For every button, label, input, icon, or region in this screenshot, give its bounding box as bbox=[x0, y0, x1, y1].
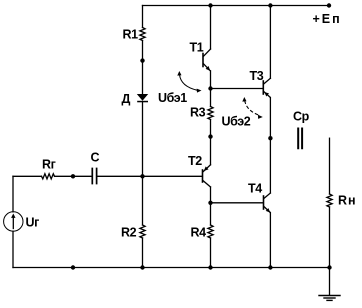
svg-text:Rг: Rг bbox=[42, 158, 56, 172]
junction node bottom b bbox=[140, 265, 144, 269]
wire R1 to diode bbox=[142, 41, 144, 95]
wire Rn to bottom rail bbox=[329, 207, 331, 268]
junction node R3 bottom bbox=[208, 134, 212, 138]
junction node input a bbox=[71, 174, 75, 178]
svg-text:Т4: Т4 bbox=[248, 182, 262, 196]
transistor T1 bbox=[203, 49, 211, 70]
source Ug arrowhead bbox=[11, 214, 15, 218]
wire T4 emitter to bottom rail bbox=[269, 213, 271, 268]
resistor R3 bbox=[208, 107, 213, 120]
junction node Cp left bbox=[268, 136, 272, 140]
transistor T3 bbox=[263, 78, 270, 97]
wire right output upper bbox=[329, 138, 331, 194]
svg-text:С: С bbox=[91, 151, 100, 165]
junction node T1 emitter / R3 / T3 base bbox=[208, 86, 212, 90]
terminal node +Ep bbox=[327, 3, 331, 7]
svg-text:Т3: Т3 bbox=[250, 69, 264, 83]
svg-text:+Еп: +Еп bbox=[313, 12, 342, 26]
junction node bottom a bbox=[71, 265, 75, 269]
transistor T1 emitter arrowhead bbox=[206, 66, 211, 71]
transistor T2 emitter arrowhead bbox=[204, 166, 209, 171]
transistor T3 emitter arrowhead bbox=[264, 92, 269, 97]
capacitor Cp bbox=[298, 129, 302, 149]
transistor T2 bbox=[203, 165, 211, 187]
junction node top rail / mid bbox=[208, 3, 212, 7]
junction node T2 collector / R4 / T4 base bbox=[208, 201, 212, 205]
wire T2 collector to T4 base bbox=[211, 202, 264, 204]
wire R2 to bottom rail bbox=[142, 238, 144, 268]
wire Rg to C bbox=[55, 175, 92, 177]
wire input-cross to R2 bbox=[142, 176, 144, 225]
wire T3 emitter to T4 collector bbox=[269, 98, 271, 194]
resistor Rn bbox=[327, 194, 332, 207]
wire right vertical rail to T3 bbox=[269, 6, 271, 79]
resistor R4 bbox=[208, 225, 213, 238]
wire bottom rail bbox=[13, 267, 330, 269]
svg-text:Uбэ2: Uбэ2 bbox=[222, 115, 251, 129]
svg-text:Uг: Uг bbox=[26, 216, 40, 230]
wire input left segment bbox=[13, 175, 42, 177]
wire R4 to bottom rail bbox=[210, 238, 212, 268]
junction node input cross bbox=[140, 174, 144, 178]
junction node R1 bottom bbox=[140, 58, 144, 62]
capacitor C bbox=[92, 169, 96, 184]
svg-text:R3: R3 bbox=[190, 106, 206, 120]
source Ug bbox=[4, 212, 23, 231]
junction node top rail / right bbox=[268, 3, 272, 7]
wire C to T2 base bbox=[97, 175, 202, 177]
annotation arrow Ube1 bbox=[177, 71, 201, 93]
svg-text:Ср: Ср bbox=[293, 110, 310, 124]
svg-text:Т2: Т2 bbox=[188, 154, 202, 168]
svg-text:R4: R4 bbox=[191, 226, 207, 240]
svg-text:R1: R1 bbox=[123, 28, 139, 42]
transistor T4 bbox=[264, 193, 271, 212]
wire node to R4 bbox=[210, 203, 212, 225]
resistor R2 bbox=[140, 225, 145, 238]
svg-text:Rн: Rн bbox=[338, 194, 357, 208]
svg-text:Т1: Т1 bbox=[190, 41, 204, 55]
resistor Rg bbox=[42, 174, 55, 179]
junction node bottom c bbox=[208, 265, 212, 269]
resistor R1 bbox=[140, 28, 145, 41]
wire T2 collector down bbox=[210, 187, 212, 203]
wire source branch upper bbox=[12, 176, 14, 212]
svg-text:R2: R2 bbox=[121, 226, 137, 240]
wire R3 to T2 emitter bbox=[210, 120, 212, 165]
wire node to R3 bbox=[210, 89, 212, 107]
svg-text:Uбэ1: Uбэ1 bbox=[158, 91, 187, 105]
wire source branch lower bbox=[12, 231, 14, 267]
wire T1 emitter down bbox=[210, 71, 212, 89]
annotation arrow Ube2 bbox=[242, 97, 262, 119]
wire bottom rail to ground bbox=[329, 268, 331, 296]
junction node bottom right bbox=[327, 265, 331, 269]
junction node bottom d bbox=[268, 265, 272, 269]
ground bbox=[319, 296, 340, 301]
wire diode to input-cross bbox=[142, 102, 144, 177]
wire mid vertical rail to T1 bbox=[210, 6, 212, 50]
svg-text:Д: Д bbox=[122, 92, 131, 106]
diode D bbox=[137, 94, 148, 102]
transistor T4 emitter arrowhead bbox=[266, 208, 271, 213]
wire top supply rail bbox=[143, 5, 330, 7]
wire left vertical top (rail to R1) bbox=[142, 6, 144, 28]
wire T1 emitter to T3 base bbox=[211, 88, 263, 90]
